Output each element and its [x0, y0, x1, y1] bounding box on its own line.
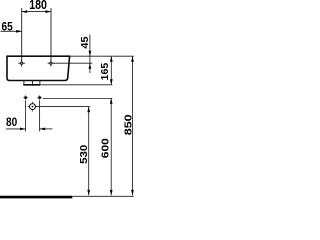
arrow down 165: [110, 79, 113, 85]
arrow 65: [16, 30, 22, 33]
mounting dot right: [37, 95, 42, 100]
floor datum line thin: [72, 195, 134, 197]
dimension 165 vertical line: [110, 56, 112, 85]
dimension 45 vertical line: [89, 35, 91, 74]
mounting dot left: [23, 95, 28, 100]
drain circle: [28, 102, 38, 112]
svg-text:180: 180: [29, 0, 47, 12]
arrow up to tap line: [89, 63, 92, 68]
arrow left of 180: [22, 10, 28, 13]
trap bottom thick: [23, 84, 40, 86]
extension line right tap: [50, 8, 52, 61]
svg-text:45: 45: [80, 36, 90, 48]
svg-text:80: 80: [6, 116, 17, 129]
extension line left tap: [21, 8, 23, 61]
floor line thick: [0, 196, 72, 199]
arrow down to basin top: [89, 51, 92, 57]
arrow down 850: [131, 190, 134, 196]
arrow 80 left: [20, 128, 26, 131]
arrow up 850: [131, 56, 134, 62]
dimension line 80 left: [6, 128, 26, 130]
svg-text:530: 530: [79, 145, 90, 164]
svg-text:600: 600: [101, 138, 112, 158]
dimension 600 vertical line: [110, 98, 112, 195]
arrow up 530: [87, 107, 90, 113]
arrow down 600: [110, 190, 113, 196]
arrow right of 180: [46, 10, 52, 13]
svg-text:65: 65: [1, 21, 12, 34]
extension line from dot left: [25, 100, 27, 131]
extension line from dot right: [39, 100, 41, 131]
dimension line 65: [1, 30, 22, 32]
tap hole right: [48, 60, 55, 67]
centerline below trap: [32, 81, 34, 86]
svg-text:165: 165: [100, 63, 111, 81]
leader from dots: [43, 97, 113, 99]
leader from trap bottom: [40, 84, 112, 86]
svg-text:850: 850: [124, 114, 135, 135]
dimension 850 vertical line: [132, 56, 134, 195]
dimension 530 vertical line: [88, 107, 90, 196]
arrow 80 right: [40, 128, 46, 131]
arrow up 600: [110, 98, 113, 103]
leader from drain circle: [36, 106, 90, 108]
arrow down 530: [87, 190, 90, 196]
siphon trap: [24, 81, 40, 85]
dimension line 180: [22, 11, 51, 13]
arrow up 165: [110, 56, 113, 62]
basin outline: [7, 56, 70, 80]
leader from right tap hole: [54, 62, 93, 64]
leader from basin top edge: [70, 55, 134, 57]
dimension line 80 right: [40, 128, 53, 130]
tap hole left: [18, 60, 25, 67]
